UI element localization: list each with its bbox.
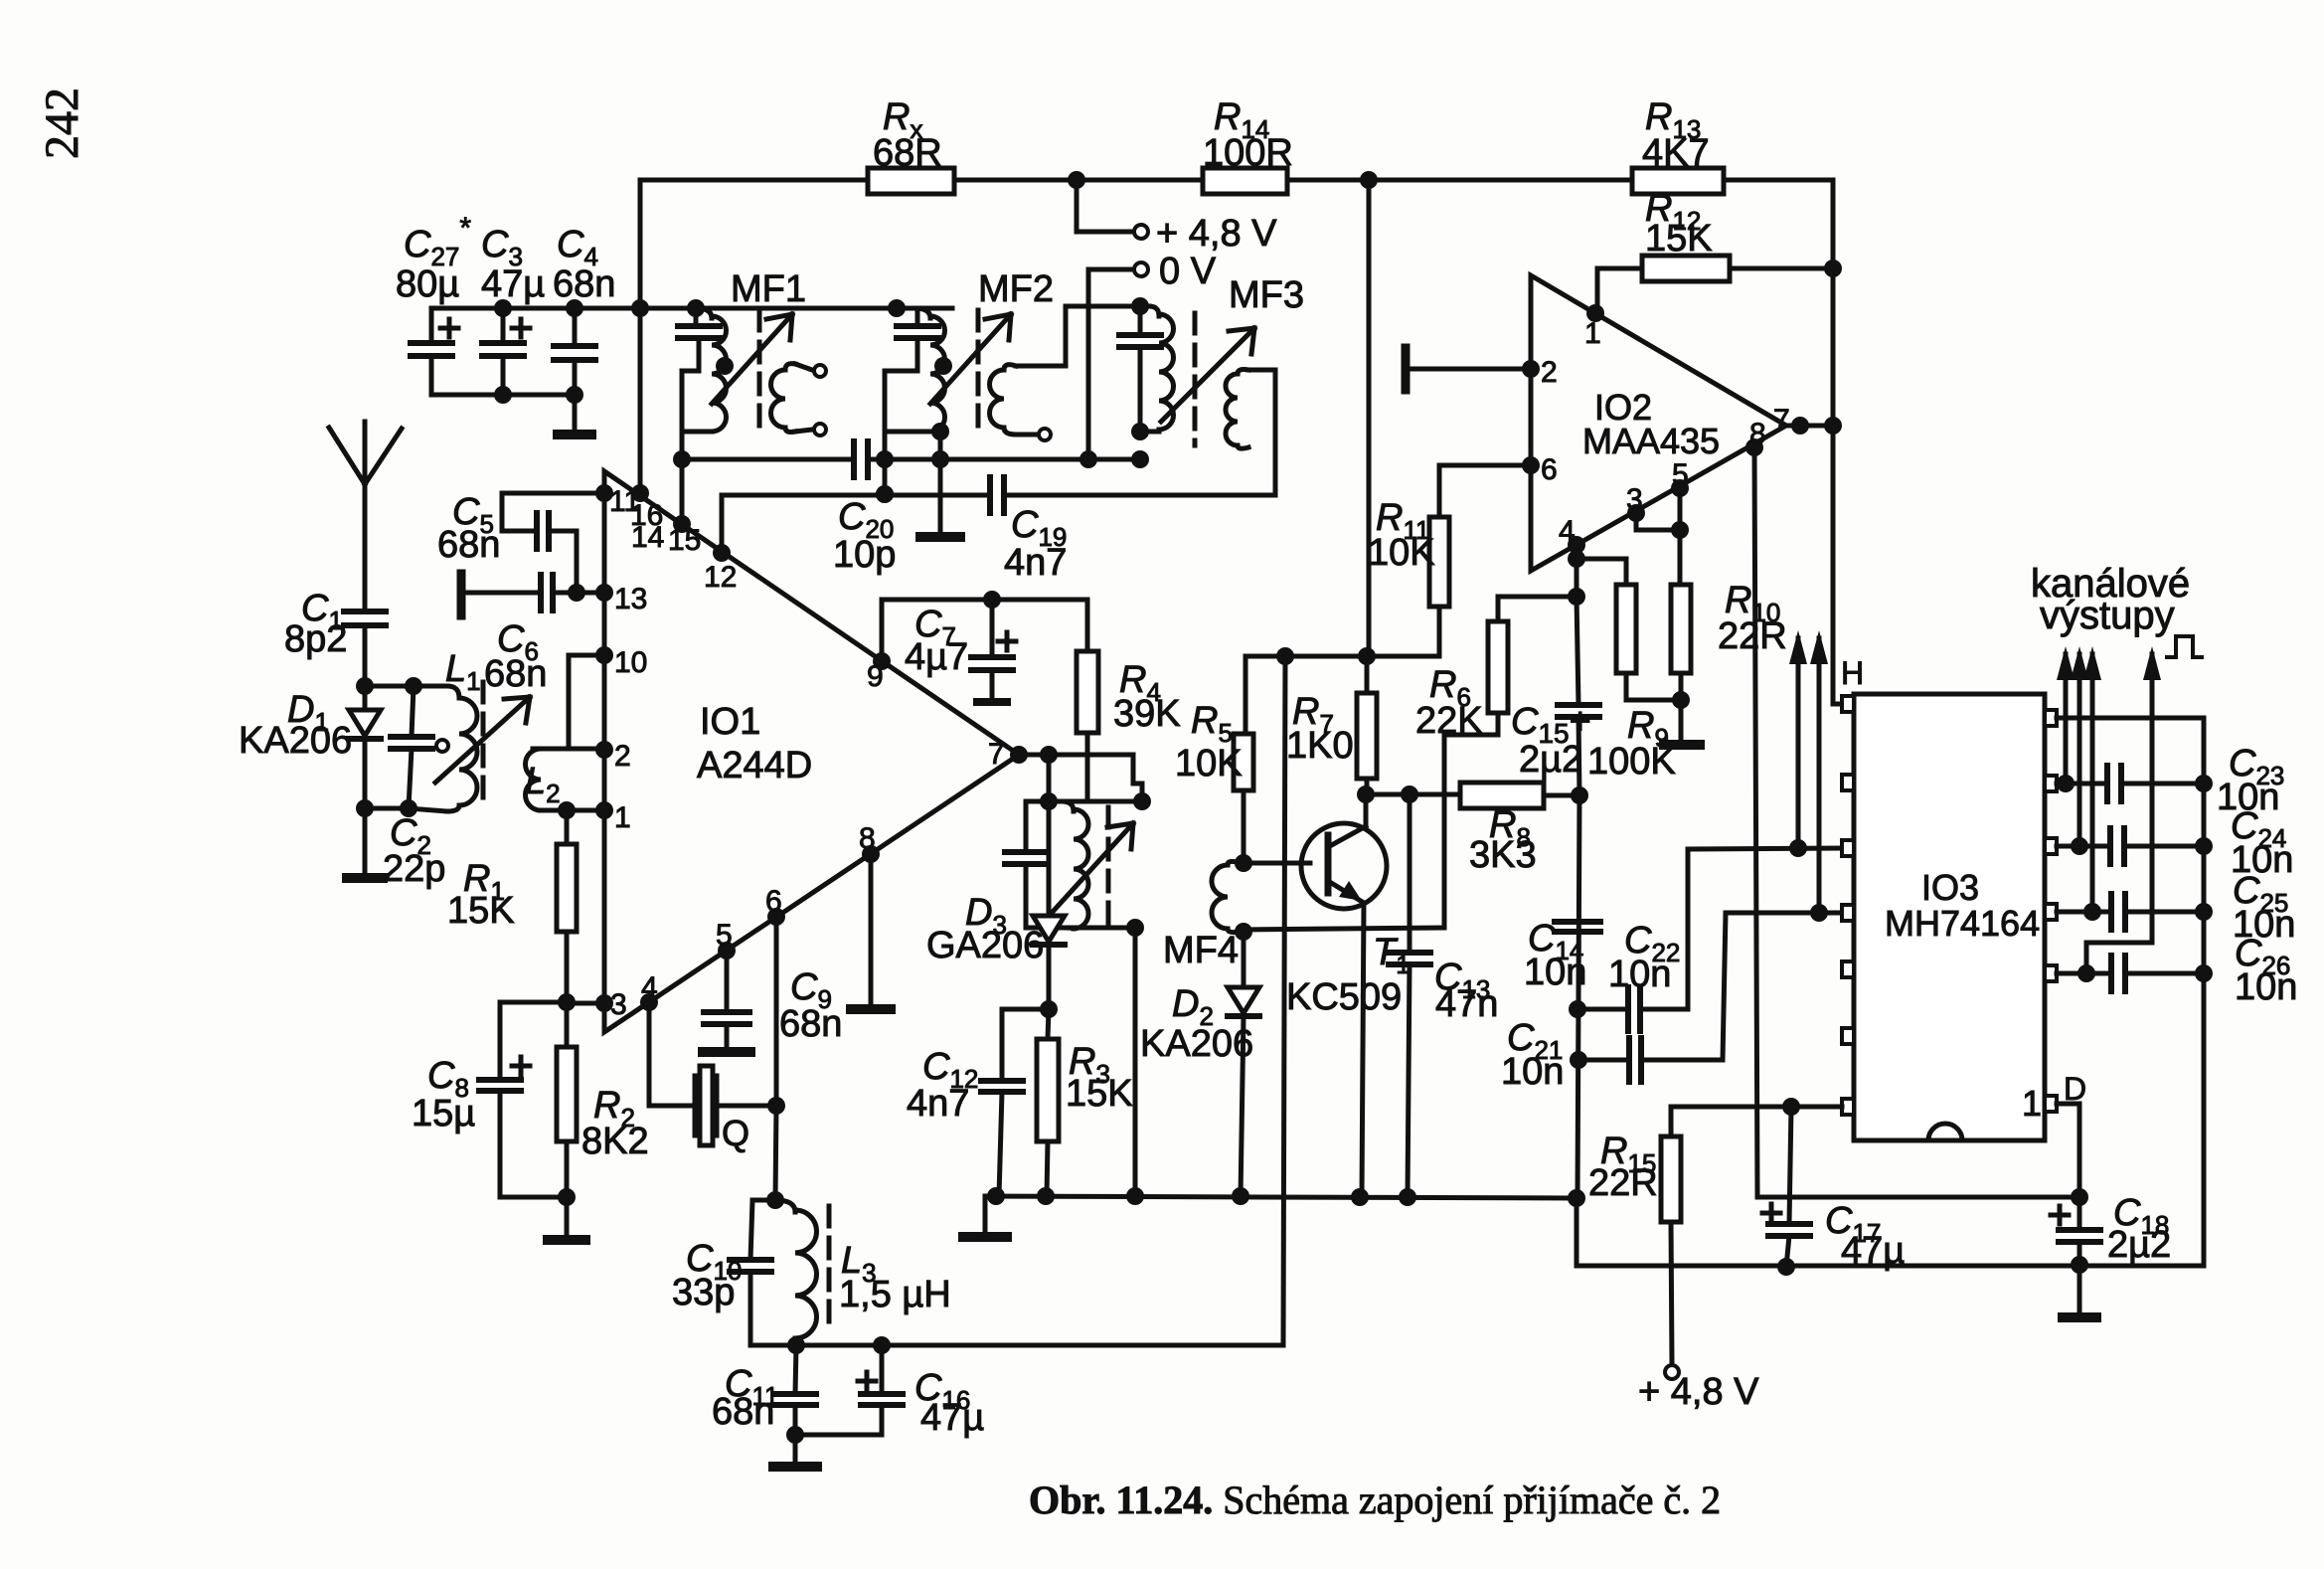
ground at rail left end — [983, 1196, 988, 1233]
ground under antenna branch — [363, 808, 368, 875]
IO2 pin 3 — [1627, 504, 1645, 522]
wire vertical from top rail through pin16 — [638, 180, 643, 493]
wire C19/pin12 bus y=498 — [722, 493, 988, 498]
MF3 primary capacitor — [1138, 306, 1143, 335]
capacitor C13 47n — [1408, 794, 1412, 953]
capacitor C16 47u electrolytic — [880, 1345, 885, 1394]
svg-text:10K: 10K — [1175, 743, 1243, 784]
svg-text:1: 1 — [614, 801, 631, 834]
wire pin4 to R9 — [1577, 559, 1626, 585]
MF4 tuning arrow — [1052, 823, 1133, 913]
svg-text:33p: 33p — [672, 1272, 735, 1313]
svg-text:3K3: 3K3 — [1469, 834, 1537, 876]
IO1 pin 4 wire to crystal — [640, 993, 658, 1011]
channel output arrow 1 — [2064, 654, 2069, 784]
svg-text:H: H — [1841, 655, 1864, 691]
svg-text:IO3: IO3 — [1921, 867, 1979, 908]
IO1 pin 8 wire to ground — [862, 845, 880, 863]
MF1 primary coil — [696, 308, 712, 318]
svg-text:5: 5 — [716, 919, 733, 952]
svg-text:4: 4 — [641, 971, 658, 1004]
capacitor C11 68n — [795, 1345, 796, 1394]
svg-text:4n7: 4n7 — [907, 1083, 969, 1125]
svg-text:Obr. 11.24. Schéma zapojení p: Obr. 11.24. Schéma zapojení přijímače č.… — [1029, 1478, 1721, 1522]
svg-text:Q: Q — [722, 1113, 749, 1153]
svg-text:GA206: GA206 — [926, 925, 1044, 966]
svg-text:9: 9 — [867, 660, 884, 693]
MF4 primary coil — [1062, 801, 1074, 811]
svg-text:68n: 68n — [712, 1391, 774, 1433]
IO2 pin 5 — [1671, 479, 1689, 497]
wire IF supply bus y=310 — [431, 306, 952, 311]
MF2 core dashed line — [976, 310, 981, 430]
wire crystal bus down to tank top — [775, 1106, 776, 1200]
MF2 ground stub — [931, 423, 949, 440]
resistor R12 — [1642, 256, 1730, 281]
pulse symbol — [2167, 636, 2202, 657]
clock arrow up left — [1796, 638, 1801, 848]
wire pin4 column — [1575, 545, 1579, 597]
diode D2 KA206 — [1235, 923, 1252, 941]
node R1/R2/pin3 junction — [558, 993, 576, 1011]
capacitor C17 47u electrolytic — [1789, 1107, 1791, 1224]
svg-text:MF4: MF4 — [1163, 930, 1239, 971]
capacitor C22 10n to IO3 — [1569, 1000, 1586, 1018]
svg-text:+ 4,8 V: + 4,8 V — [1156, 213, 1277, 255]
IO1 pin 9 wire to C7 node — [873, 652, 891, 670]
resistor R1 15K — [565, 810, 570, 844]
wire antenna node to L1 — [363, 625, 368, 686]
svg-text:47n: 47n — [1435, 983, 1498, 1025]
inductor L1 (tuned) — [414, 684, 447, 689]
svg-text:68n: 68n — [437, 524, 500, 566]
wire T1 emitter down to bottom rail — [1362, 903, 1364, 1196]
resistor R11 10K — [1437, 465, 1442, 517]
resistor R8 3K3 — [1460, 783, 1544, 808]
svg-text:1K0: 1K0 — [1286, 725, 1354, 767]
wire T1 collector node — [1366, 792, 1460, 797]
resistor R9 100K — [1616, 585, 1636, 673]
svg-text:MAA435: MAA435 — [1582, 421, 1720, 461]
svg-text:KA206: KA206 — [1140, 1023, 1253, 1065]
svg-text:MF3: MF3 — [1229, 274, 1304, 316]
svg-text:3: 3 — [610, 988, 627, 1021]
MF1 secondary coil — [771, 370, 786, 428]
svg-text:47µ: 47µ — [920, 1397, 984, 1439]
capacitor C21 10n to IO3 — [1570, 1051, 1587, 1069]
MF3 secondary top lead to C19 bus — [1248, 370, 1275, 495]
svg-text:10n: 10n — [1524, 952, 1586, 993]
capacitor C26 10n row — [2057, 971, 2111, 976]
svg-text:7: 7 — [988, 738, 1005, 771]
resistor Rx — [868, 168, 954, 194]
capacitor C25 10n row — [2057, 910, 2111, 915]
IO3 left pin stubs — [1842, 696, 1854, 712]
transistor T1 KC509 — [1301, 823, 1387, 909]
svg-text:2: 2 — [614, 740, 631, 773]
svg-text:10n: 10n — [1501, 1051, 1564, 1093]
resistor R7 1K0 — [1365, 656, 1370, 693]
capacitor C1 8p2 — [344, 609, 386, 614]
ground under C11 — [793, 1435, 798, 1463]
svg-text:10n: 10n — [2235, 966, 2297, 1008]
svg-text:1: 1 — [1584, 317, 1601, 350]
capacitor C2 22p — [412, 686, 414, 737]
wire IO2 pin6 input — [1439, 463, 1531, 468]
wire D-input rail from IO2 pin8 to D pin — [1757, 1195, 2079, 1200]
svg-text:68n: 68n — [553, 263, 615, 305]
diode D3 GA206 — [1047, 801, 1052, 916]
channel output arrow 2 — [2077, 654, 2082, 846]
svg-text:MF2: MF2 — [978, 268, 1054, 310]
IO1 pin 16 label — [631, 484, 649, 502]
shift register IO3 MH74164 box — [1854, 694, 2045, 1140]
wire MF4 bottom line to R6 leg — [1244, 928, 1444, 930]
MF1 tuning arrow — [712, 314, 792, 404]
capacitor C15 2u2 electrolytic — [1577, 597, 1578, 705]
capacitor C18 2u2 electrolytic — [2077, 1197, 2082, 1230]
capacitor C23 10n row — [2057, 782, 2107, 786]
svg-text:68n: 68n — [779, 1003, 842, 1045]
MF4 primary bottom wire — [1026, 926, 1135, 931]
MF1 secondary terminals — [814, 365, 826, 377]
svg-text:6: 6 — [765, 885, 782, 918]
inductor L2 — [533, 747, 541, 752]
svg-text:8p2: 8p2 — [284, 618, 347, 660]
svg-text:MH74164: MH74164 — [1885, 903, 2040, 944]
wire bottom ground rail — [985, 1196, 1577, 1198]
capacitor C24 10n row — [2057, 844, 2110, 849]
svg-text:KC509: KC509 — [1286, 976, 1402, 1018]
IO1 pin 1 wire — [595, 801, 613, 819]
wire ground rail jog to lower rail — [1577, 1198, 2204, 1266]
svg-text:10n: 10n — [1608, 954, 1671, 995]
svg-text:0 V: 0 V — [1159, 251, 1217, 292]
svg-text:15K: 15K — [1645, 218, 1713, 260]
wire R14 to R13 with junction to IO2 input column — [1287, 178, 1632, 183]
svg-text:14: 14 — [631, 521, 664, 554]
svg-text:47µ: 47µ — [481, 263, 545, 305]
svg-text:KA206: KA206 — [239, 720, 352, 762]
svg-text:výstupy: výstupy — [2040, 594, 2175, 637]
wire pin5 pin3 to R10 — [1678, 488, 1683, 530]
pulse output arrow with jog — [2086, 943, 2152, 973]
L1 core dashed line — [481, 682, 486, 809]
L1 tap open circle — [436, 740, 448, 752]
MF4 core dashed line — [1106, 807, 1111, 925]
MF4 ground leg to bottom rail — [1133, 928, 1138, 1196]
svg-text:2: 2 — [1541, 356, 1558, 389]
MF1 primary capacitor — [694, 308, 699, 326]
MF2 primary left rail — [883, 371, 888, 494]
wire pin8 down to D input rail — [1754, 447, 1757, 1197]
MF4 primary capacitor — [1024, 801, 1029, 852]
IO1 pin 10 wire — [595, 646, 613, 664]
svg-text:100R: 100R — [1203, 132, 1293, 174]
IO2 pin 2 with ground bar — [1522, 360, 1540, 378]
svg-text:68n: 68n — [484, 653, 547, 695]
wire Rx to R14 with +4.8V branch junction — [954, 178, 1203, 183]
wire D pin riser — [2057, 1104, 2079, 1197]
svg-text:15K: 15K — [447, 890, 515, 932]
svg-text:80µ: 80µ — [396, 263, 459, 305]
svg-text:15: 15 — [668, 524, 701, 557]
svg-text:8: 8 — [859, 822, 876, 855]
wire R12 right lead to right rail — [1730, 266, 1833, 271]
IO1 pin 7 output node — [1010, 746, 1028, 764]
op-amp IO1 A244D triangle — [604, 471, 1019, 1032]
MF2 primary coil — [914, 308, 930, 318]
MF3 secondary coil — [1226, 374, 1238, 445]
IO2 pin 1 — [1586, 304, 1604, 322]
terminal +4,8V bottom — [1665, 1365, 1679, 1379]
IO1 pin 11 and C5 — [595, 484, 613, 502]
IO3 right pin stubs — [2045, 710, 2057, 726]
resistor R6 22K leg — [1442, 735, 1447, 928]
wire pin7 output node — [1019, 753, 1133, 758]
IO1 pin 12 wire to C19 bus — [713, 544, 731, 562]
resistor R13 — [1632, 168, 1724, 194]
resistor R14 — [1203, 168, 1287, 194]
IO2 pin 6 — [1522, 456, 1540, 474]
IO1 pin 15 wire to 0V bus — [673, 515, 691, 533]
svg-text:22R: 22R — [1718, 615, 1787, 657]
IO2 pin 8 output feedback — [1745, 438, 1763, 456]
IO1 pin 5 bypass capacitor and ground — [718, 942, 736, 959]
MF2 primary capacitor — [915, 308, 920, 326]
svg-text:22p: 22p — [383, 848, 445, 890]
wire D1 bottom node — [356, 799, 374, 817]
IO1 pin 6 wire down to crystal bus — [767, 908, 785, 926]
MF2 tuning arrow — [930, 314, 1011, 404]
svg-text:8K2: 8K2 — [581, 1121, 649, 1162]
svg-text:4K7: 4K7 — [1642, 132, 1710, 174]
channel output arrow 3 — [2090, 654, 2095, 912]
wire AGC node y=660 — [1245, 654, 1439, 659]
ground under C4 — [558, 430, 591, 439]
svg-text:68R: 68R — [873, 132, 942, 174]
MF3 primary coil — [1149, 306, 1159, 316]
svg-text:47µ: 47µ — [1841, 1230, 1905, 1272]
svg-text:4n7: 4n7 — [1004, 542, 1067, 584]
svg-text:1,5 µH: 1,5 µH — [839, 1274, 951, 1315]
MF3 tuning arrow — [1161, 328, 1254, 422]
MF4 primary top wire — [1026, 799, 1142, 804]
svg-text:4µ7: 4µ7 — [905, 636, 968, 678]
wire pin9 node to C7 and R4 — [882, 598, 1087, 603]
resistor R15 22R — [1671, 1107, 1842, 1136]
MF3 primary top wire — [1066, 304, 1149, 309]
MF1 coil tap dot — [716, 357, 734, 375]
L1 tuning arrow — [435, 697, 530, 783]
svg-text:22K: 22K — [1415, 700, 1483, 742]
wire IO3 top right to output bus — [2057, 718, 2204, 1266]
wire 0V bus y=462 with C20 in series — [682, 457, 852, 462]
wire R12 left lead to IO2 pin 1 — [1597, 268, 1642, 313]
wire C15 column down to ground rail — [1577, 795, 1579, 1198]
terminal 0 V — [1134, 262, 1148, 276]
capacitor C20 10p — [851, 441, 857, 477]
capacitor C14 10n — [1555, 919, 1600, 925]
capacitor C4 68n — [573, 308, 578, 346]
wire long vertical from R14 junction down to AGC node — [1367, 180, 1372, 656]
clock arrow up right — [1817, 638, 1822, 913]
svg-text:7: 7 — [1773, 404, 1790, 436]
svg-text:+ 4,8 V: + 4,8 V — [1638, 1371, 1759, 1413]
svg-text:2µ2: 2µ2 — [1519, 739, 1582, 781]
resistor R5 10K — [1244, 656, 1248, 734]
capacitor C8 15u electrolytic — [500, 1000, 567, 1005]
svg-text:15µ: 15µ — [412, 1093, 475, 1134]
node R2 bottom junction and ground — [558, 1188, 576, 1206]
antenna — [363, 422, 368, 611]
inductor L3 1.5uH — [775, 1200, 795, 1212]
svg-text:2µ2: 2µ2 — [2107, 1224, 2171, 1266]
svg-text:1: 1 — [2022, 1083, 2042, 1124]
IO1 pin 3 wire — [595, 994, 613, 1012]
wire top rail left segment to Rx — [640, 178, 868, 183]
MF3 core dashed line — [1193, 313, 1198, 445]
crystal Q — [693, 1076, 698, 1135]
IO2 pin 4 — [1568, 536, 1585, 554]
MF1 core dashed line — [757, 310, 762, 430]
wire MF4 secondary to T1 base with R5 junction — [1240, 861, 1310, 866]
L3 core dashed line — [827, 1206, 832, 1332]
wire C27/C3/C4 bottom bus — [431, 393, 575, 398]
diode D1 KA206 — [363, 686, 368, 710]
svg-text:15K: 15K — [1066, 1073, 1133, 1115]
svg-text:39K: 39K — [1113, 693, 1181, 735]
MF1 primary left rail down to pin15 — [680, 371, 685, 524]
resistor R10 22R — [1671, 585, 1691, 673]
resistor R2 8K2 — [565, 1002, 570, 1047]
svg-text:A244D: A244D — [697, 745, 812, 786]
svg-text:IO1: IO1 — [700, 701, 760, 743]
MF4 secondary coil — [1212, 865, 1228, 929]
wire oscillator feed down to L3 tank — [1283, 656, 1285, 1345]
resistor R3 15K — [1048, 1009, 1049, 1039]
svg-text:10: 10 — [614, 646, 647, 679]
ground under C18 — [2077, 1265, 2082, 1312]
MF2 secondary coil — [990, 370, 1005, 428]
IO1 pin 2 — [595, 741, 613, 759]
svg-text:6: 6 — [1541, 453, 1558, 486]
wire R9/R10 common to ground — [1626, 698, 1681, 703]
capacitor C19 4n7 — [987, 477, 993, 513]
capacitor C10 33p — [750, 1200, 775, 1260]
wire tank bottom bus — [750, 1343, 1283, 1348]
svg-text:4: 4 — [1559, 515, 1576, 548]
svg-text:MF1: MF1 — [731, 268, 806, 310]
MF2 secondary top wire to MF3 — [1016, 306, 1066, 366]
capacitor C12 4n7 — [1002, 1009, 1049, 1081]
wire R6 top to C15 node — [1498, 595, 1577, 600]
wire R13 to right rail corner down to IO3 pin H — [1724, 180, 1842, 704]
svg-text:10p: 10p — [833, 534, 896, 576]
op-amp IO2 MAA435 triangle — [1531, 275, 1786, 571]
MF2 secondary bottom terminal — [1016, 433, 1037, 437]
svg-text:242: 242 — [36, 87, 88, 159]
MF2 coil tap dot — [934, 357, 952, 375]
capacitor C7 4u7 electrolytic — [990, 600, 995, 657]
terminal +4,8 V top — [1075, 180, 1079, 232]
svg-text:13: 13 — [614, 583, 647, 615]
IO1 pin 13 and C6 — [595, 584, 613, 602]
svg-text:12: 12 — [704, 561, 737, 594]
svg-text:10K: 10K — [1368, 532, 1435, 574]
capacitor C3 (electrolytic 47u) — [501, 308, 506, 343]
svg-text:22R: 22R — [1588, 1162, 1658, 1204]
resistor R4 39K — [1085, 600, 1090, 651]
capacitor C27 (electrolytic 80u) — [429, 308, 434, 343]
